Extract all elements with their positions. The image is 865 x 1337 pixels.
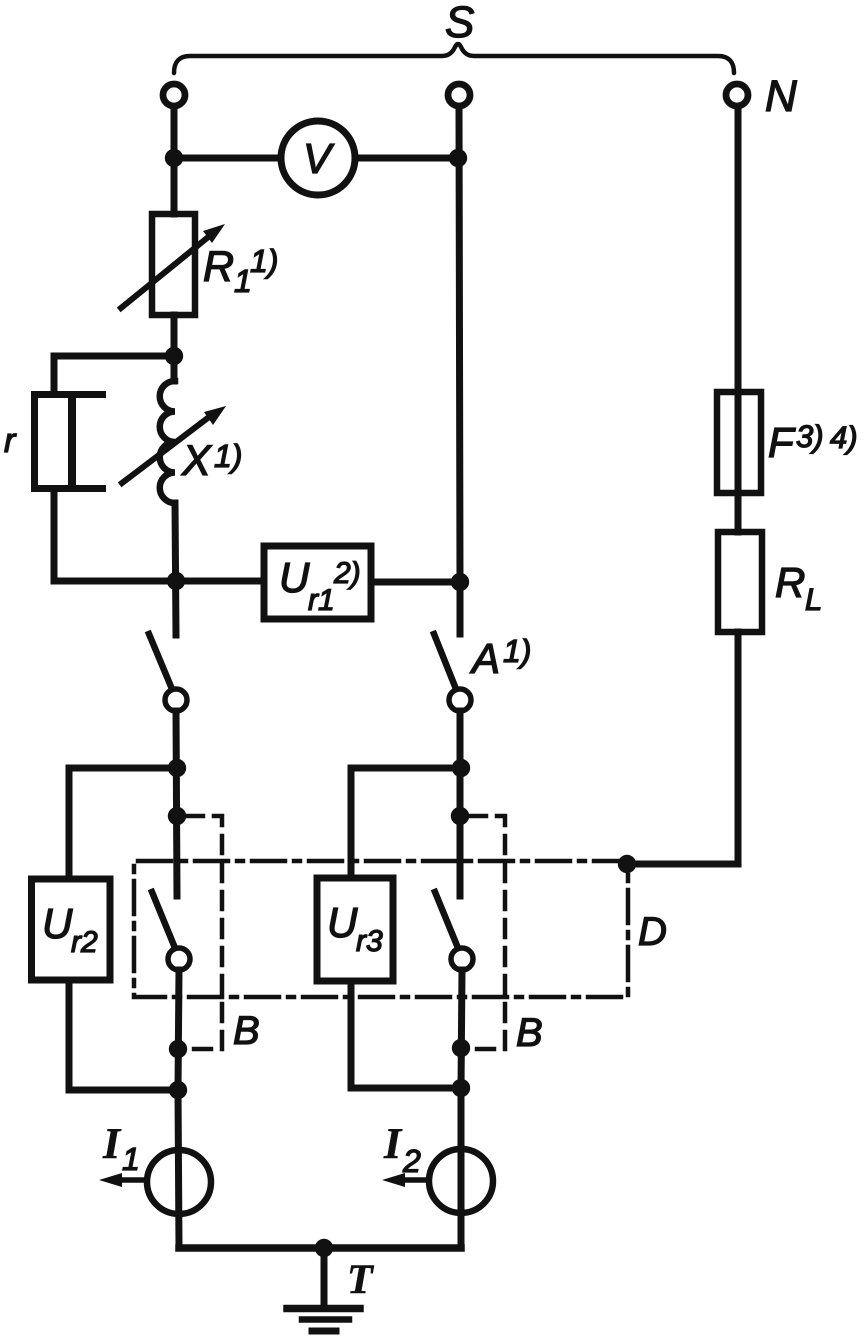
box Ur3 [317, 878, 393, 981]
wire node to Ur1 [176, 578, 264, 585]
label I1 [102, 1119, 140, 1177]
svg-text:U: U [42, 900, 73, 947]
svg-text:B: B [516, 1011, 543, 1055]
terminal left [163, 84, 185, 106]
resistor RL [718, 532, 762, 632]
wire r branch bottom [54, 492, 176, 581]
wire left terminal down [171, 107, 178, 214]
wire r branch top [54, 356, 174, 391]
terminal N [726, 84, 748, 106]
svg-text:N: N [765, 72, 797, 121]
node D right [618, 855, 636, 873]
node B-right top [451, 807, 469, 825]
node middle Ur3 top [452, 759, 470, 777]
svg-text:D: D [638, 910, 667, 954]
node B-right bottom [452, 1039, 470, 1057]
svg-text:U: U [327, 899, 358, 946]
node r branch top [165, 347, 183, 365]
dash-dot box D [134, 861, 628, 997]
node B-left bottom [169, 1040, 187, 1058]
node ground junction [315, 1239, 333, 1257]
wire RL down to D [627, 632, 738, 864]
node left bottom junction [169, 1081, 187, 1099]
label F 3) 4) [768, 419, 858, 466]
box Ur2 [32, 879, 111, 980]
wire to I1 [178, 1090, 179, 1248]
wire to Ur2 top [69, 768, 177, 879]
svg-text:V: V [303, 135, 335, 182]
arrow of X1 [122, 414, 213, 483]
svg-text:3): 3) [796, 419, 824, 454]
wire below [178, 970, 179, 1090]
svg-text:R: R [775, 559, 805, 606]
box Ur1 [264, 546, 371, 619]
svg-text:L: L [805, 582, 822, 617]
node middle V junction [449, 149, 467, 167]
svg-text:1: 1 [122, 1141, 140, 1177]
svg-text:B: B [233, 1009, 260, 1053]
switch right inner [435, 892, 458, 948]
wire Ur1 to middle [371, 579, 460, 586]
dashed box B right [469, 816, 505, 1049]
switch left inner [152, 892, 175, 948]
label X 1) [181, 437, 242, 485]
current source I2 [429, 1149, 493, 1213]
switch A1 [434, 634, 456, 689]
ground stub [321, 1248, 328, 1305]
wire to Ur3 top [351, 768, 461, 878]
fuse F [717, 392, 761, 493]
wire V right [355, 155, 458, 162]
arrow I1 [113, 1177, 146, 1183]
svg-text:1): 1) [503, 633, 531, 669]
svg-text:2): 2) [333, 557, 361, 590]
wire Ur1 node to switch A [457, 582, 464, 634]
label A 1) [469, 633, 531, 682]
svg-text:r2: r2 [71, 926, 98, 959]
svg-text:T: T [347, 1257, 375, 1303]
wire V left [174, 155, 281, 162]
label I2 [383, 1119, 421, 1179]
node middle bottom junction [452, 1079, 470, 1097]
wire coil to node [175, 503, 176, 635]
node Ur1 right [451, 573, 469, 591]
node left V junction [165, 149, 183, 167]
wire Ur3 bottom [351, 981, 461, 1088]
ground bars [287, 1305, 360, 1313]
brace S [174, 44, 734, 73]
svg-text:F: F [768, 419, 796, 466]
svg-text:X: X [181, 437, 213, 485]
svg-text:I: I [102, 1119, 122, 1168]
svg-text:r1: r1 [308, 584, 335, 617]
svg-text:S: S [445, 0, 474, 47]
dashed box B left [186, 816, 222, 1049]
arrow of R1 [121, 234, 212, 308]
node B-left top [168, 807, 186, 825]
wire Ur2 bottom [69, 980, 178, 1090]
wire middle terminal down [459, 107, 460, 582]
terminal middle [448, 84, 470, 106]
wire below left switch [176, 711, 177, 896]
switch left upper [149, 634, 172, 689]
wire below [461, 970, 462, 1088]
inductor X1 coil [160, 381, 175, 503]
label R1 1) [203, 243, 278, 299]
current source I1 [147, 1150, 211, 1214]
wire R1 to node [171, 315, 178, 381]
svg-text:r3: r3 [356, 925, 383, 958]
svg-text:r: r [4, 422, 17, 460]
arrow I2 [396, 1177, 428, 1183]
svg-text:1): 1) [214, 438, 242, 474]
svg-text:4): 4) [830, 420, 858, 455]
svg-text:U: U [279, 554, 310, 601]
node left Ur2 top [168, 759, 186, 777]
bottom wire [179, 1244, 461, 1252]
svg-text:2: 2 [402, 1143, 421, 1179]
resistor R1 [152, 214, 195, 315]
node Ur1 left [167, 572, 185, 590]
svg-text:1): 1) [250, 243, 278, 279]
resistor r body [35, 395, 107, 489]
wire below switch A [457, 711, 464, 896]
svg-text:I: I [383, 1119, 403, 1168]
voltmeter V [281, 121, 355, 195]
wire to I2 [458, 1088, 465, 1248]
svg-text:A: A [469, 635, 500, 682]
right line N down [735, 107, 742, 532]
svg-text:R: R [203, 243, 234, 291]
